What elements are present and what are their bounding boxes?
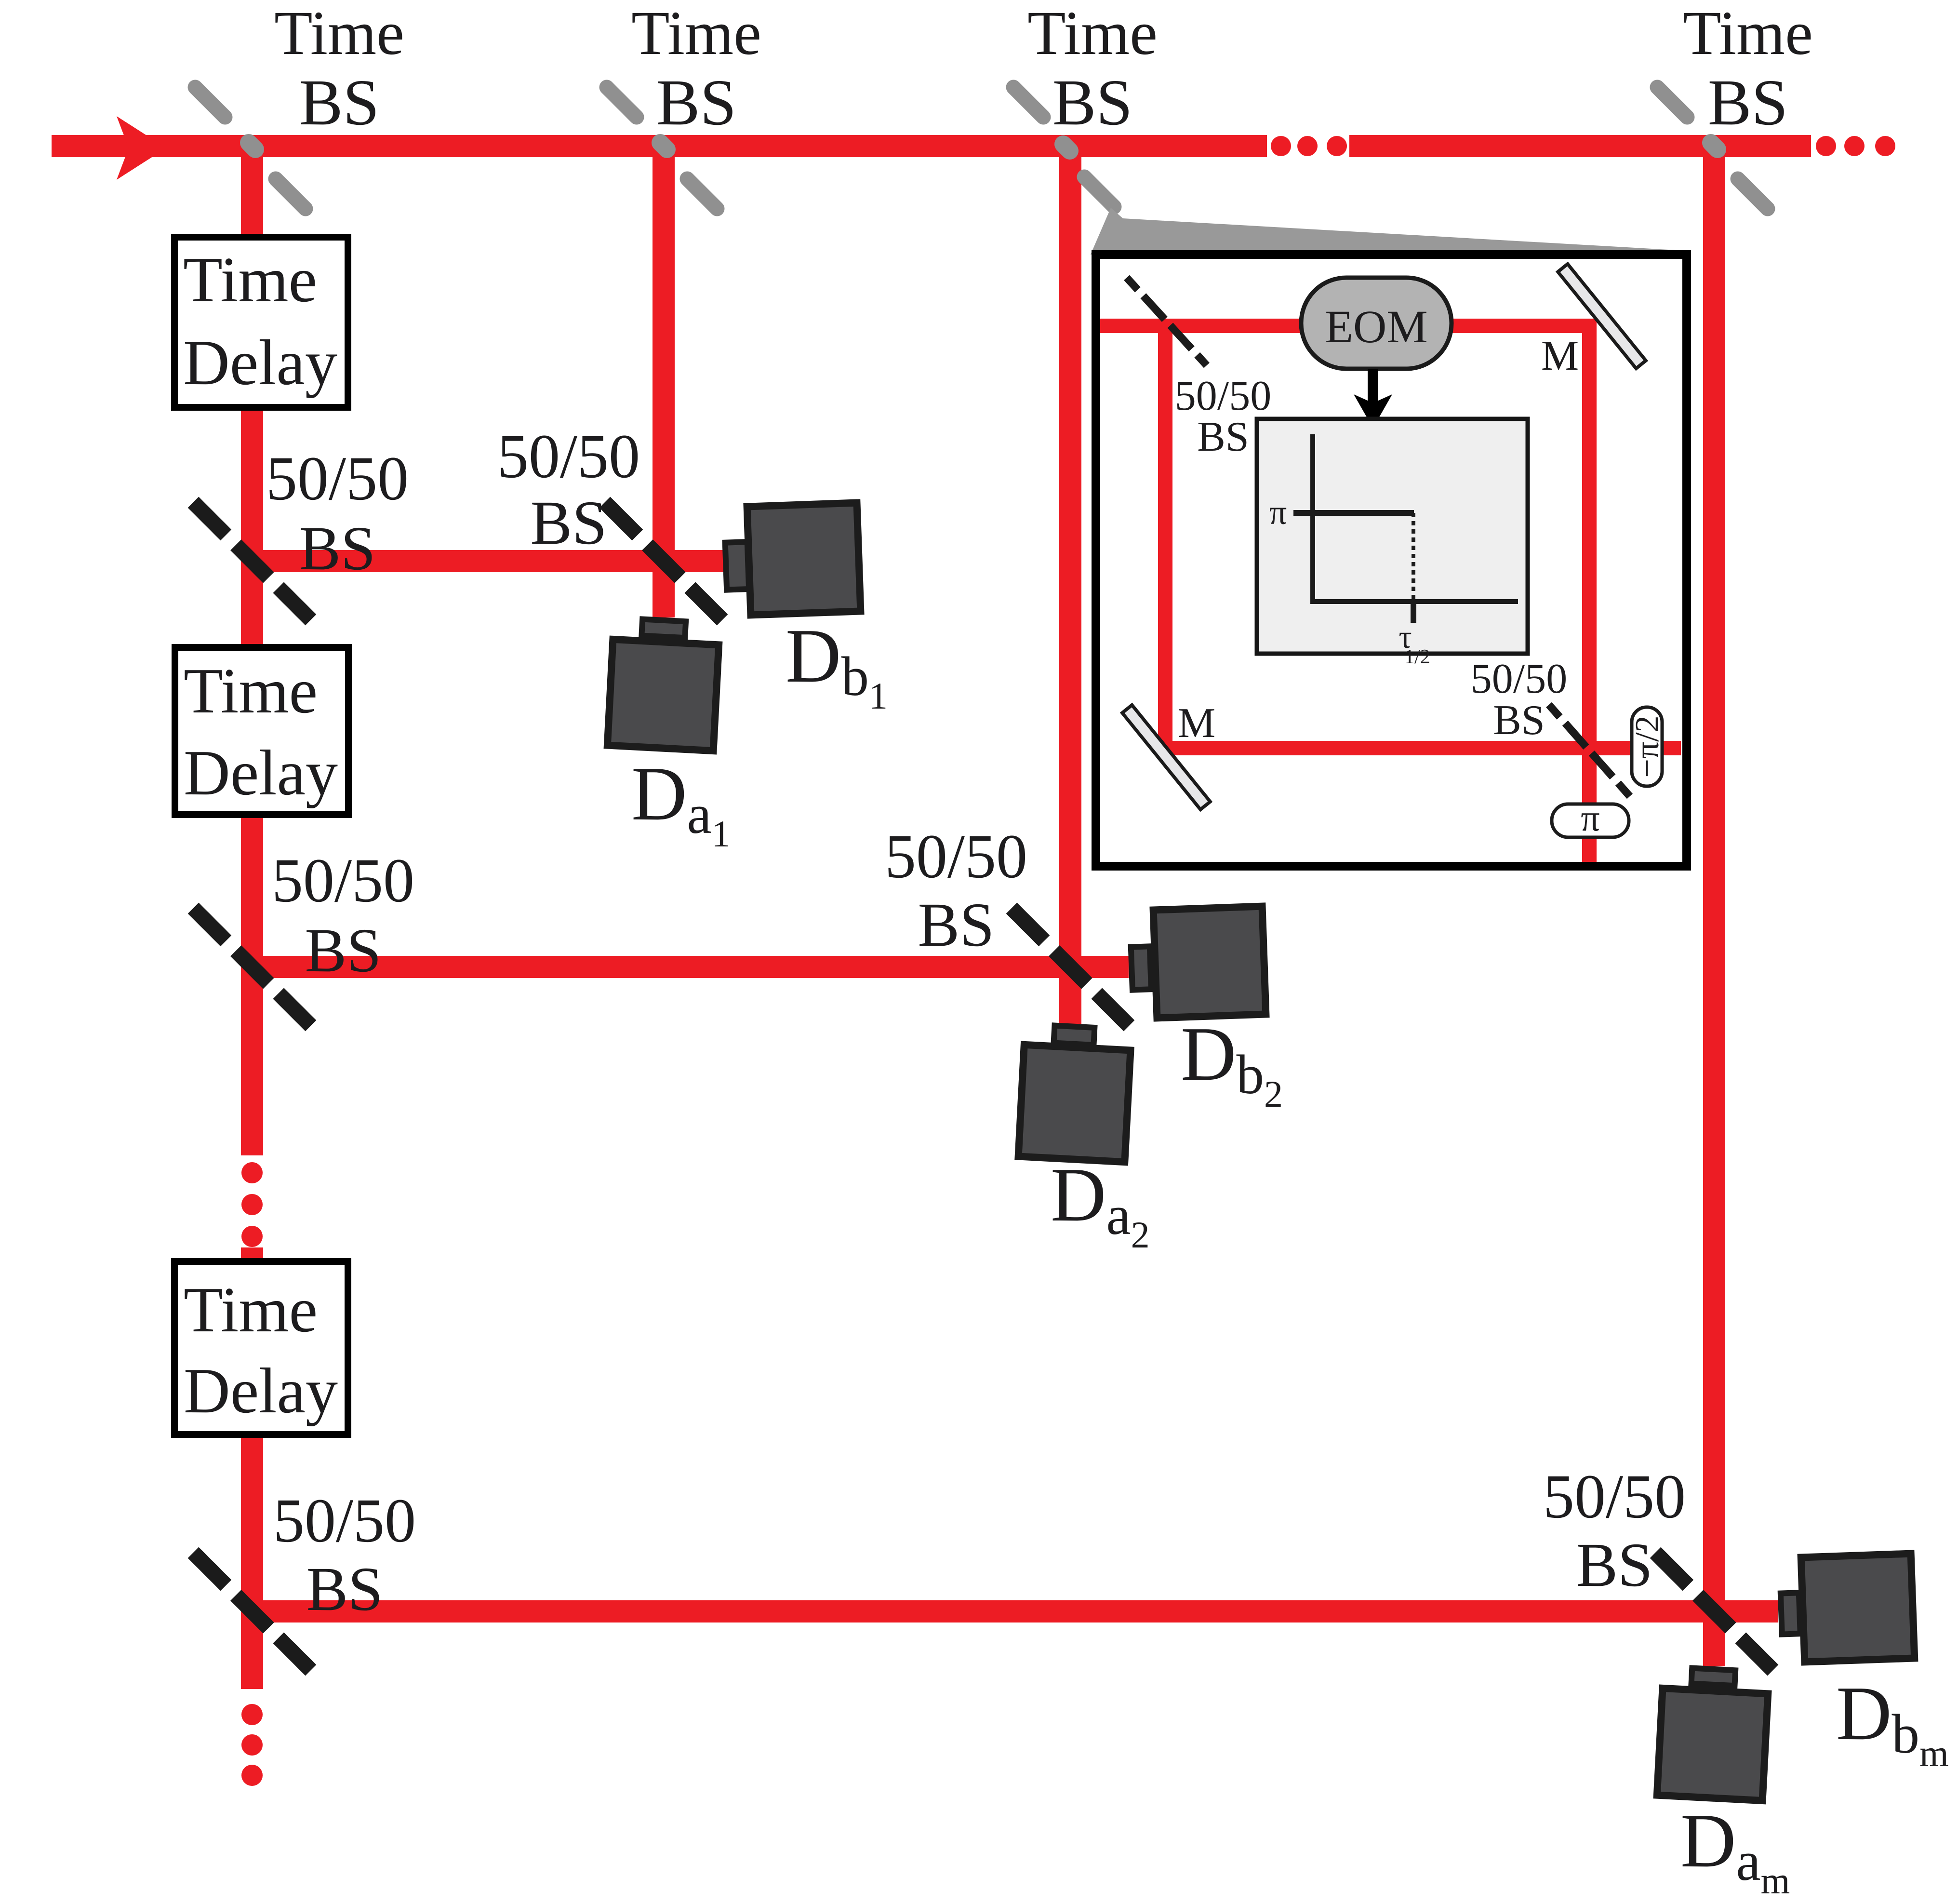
svg-text:BS: BS <box>1708 67 1788 139</box>
svg-text:Time: Time <box>184 655 318 726</box>
svg-text:50/50: 50/50 <box>273 1486 416 1555</box>
svg-text:Time: Time <box>1027 0 1158 68</box>
svg-text:π: π <box>1581 797 1599 839</box>
svg-text:BS: BS <box>299 67 379 139</box>
svg-text:Delay: Delay <box>183 327 337 398</box>
svg-text:Delay: Delay <box>184 1355 338 1426</box>
svg-text:EOM: EOM <box>1325 301 1427 352</box>
svg-text:Dam: Dam <box>1680 1797 1790 1902</box>
svg-text:Time: Time <box>631 0 761 68</box>
svg-text:50/50: 50/50 <box>885 822 1027 891</box>
svg-text:50/50: 50/50 <box>1471 656 1567 702</box>
svg-text:BS: BS <box>305 916 381 985</box>
svg-text:M: M <box>1178 700 1215 747</box>
svg-text:BS: BS <box>656 67 736 139</box>
svg-text:Time: Time <box>274 0 404 68</box>
svg-text:BS: BS <box>299 514 375 583</box>
svg-text:Da1: Da1 <box>631 751 731 855</box>
svg-text:BS: BS <box>1052 67 1132 139</box>
svg-text:BS: BS <box>1493 697 1545 744</box>
svg-text:BS: BS <box>1197 414 1249 460</box>
svg-text:Delay: Delay <box>184 737 338 808</box>
svg-text:BS: BS <box>530 488 607 558</box>
svg-text:1/2: 1/2 <box>1404 646 1430 668</box>
svg-text:50/50: 50/50 <box>272 846 414 915</box>
svg-text:Time: Time <box>184 1274 318 1345</box>
svg-text:Db1: Db1 <box>786 613 888 717</box>
svg-text:Dbm: Dbm <box>1836 1670 1949 1774</box>
svg-text:50/50: 50/50 <box>1175 373 1271 419</box>
svg-text:Da2: Da2 <box>1051 1152 1150 1256</box>
svg-text:50/50: 50/50 <box>1543 1462 1686 1531</box>
svg-text:50/50: 50/50 <box>497 422 640 491</box>
svg-text:π: π <box>1269 493 1287 532</box>
svg-text:Db2: Db2 <box>1181 1011 1283 1115</box>
svg-text:BS: BS <box>306 1555 383 1624</box>
svg-text:Time: Time <box>183 244 317 315</box>
svg-text:M: M <box>1541 333 1579 379</box>
svg-text:BS: BS <box>1576 1530 1652 1600</box>
svg-text:50/50: 50/50 <box>266 444 409 513</box>
svg-text:−π/2: −π/2 <box>1629 715 1666 778</box>
svg-text:Time: Time <box>1683 0 1813 68</box>
svg-text:BS: BS <box>918 890 994 960</box>
